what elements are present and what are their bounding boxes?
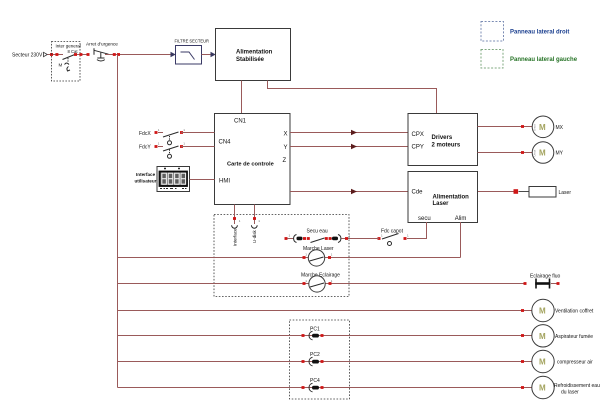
wire filter to power supply (202, 54, 212, 56)
motor MX (532, 116, 563, 138)
svg-text:U-disk: U-disk (252, 229, 257, 243)
svg-text:Umot: Umot (533, 150, 537, 157)
svg-text:Carte de controle: Carte de controle (227, 161, 274, 167)
arrow Cde (351, 189, 357, 194)
motor ventilation coffret (532, 299, 594, 321)
svg-text:du laser: du laser (561, 390, 579, 396)
wire U1 to CN1 (241, 81, 243, 114)
lamp Eclairage fluo (524, 274, 561, 289)
wire PC2 row (118, 361, 533, 363)
legend panneau lateral droit (481, 22, 569, 42)
enclosure dashed panel (marche controls) (214, 215, 349, 297)
svg-text:M: M (539, 358, 546, 367)
svg-text:HMI: HMI (219, 179, 230, 185)
laser head (529, 187, 571, 198)
node dots at inter general output (74, 53, 90, 56)
svg-text:MX: MX (556, 125, 564, 131)
filter F1 FILTRE SECTEUR (175, 39, 210, 65)
wire X output to driver CPX (290, 132, 408, 134)
svg-text:Y: Y (284, 145, 288, 151)
power supply U1 Alimentation Stabilisee (216, 29, 291, 81)
wire Alim pin riser (460, 222, 462, 258)
motor MY (532, 142, 563, 164)
enclosure dashed panel PC (prises) (290, 320, 350, 399)
wire PC1 row (118, 335, 533, 337)
wire laser supply to laser head (478, 191, 514, 193)
svg-text:secu: secu (418, 216, 431, 222)
svg-text:FdcX: FdcX (139, 131, 151, 137)
svg-text:X: X (284, 132, 288, 138)
wire mains from J1 to inter general (48, 54, 64, 56)
svg-text:Umot: Umot (533, 124, 537, 131)
svg-text:CN1: CN1 (234, 119, 247, 125)
node mains dots at inter general input (50, 53, 58, 56)
svg-text:Alimentation: Alimentation (236, 50, 273, 56)
svg-text:M: M (539, 149, 546, 158)
laser supply U4 Alimentation Laser (408, 172, 478, 223)
arrow into filter (171, 52, 176, 57)
svg-text:Interface: Interface (136, 172, 156, 177)
svg-text:Fdc capot: Fdc capot (381, 229, 404, 235)
wire secu pin down to fdc capot (407, 222, 427, 239)
socket PC4 (302, 378, 324, 392)
arrow into power supply (211, 52, 216, 57)
svg-text:Stabilisée: Stabilisée (236, 57, 265, 63)
driver U3 Drivers 2 moteurs (408, 114, 478, 166)
legend panneau lateral gauche (481, 50, 578, 69)
svg-text:compresseur air: compresseur air (557, 360, 593, 366)
svg-text:Drivers: Drivers (432, 135, 453, 141)
svg-text:Z: Z (283, 158, 287, 164)
motor compresseur air (532, 350, 593, 372)
node laser junction (514, 189, 519, 194)
svg-text:Refroidissement eau: Refroidissement eau (554, 383, 600, 389)
motor aspirateur fumee (532, 325, 593, 347)
arrow Y (351, 144, 357, 149)
wire from emergency stop to filter (105, 54, 171, 56)
svg-text:Interface: Interface (233, 228, 238, 246)
switch Marche Laser (303, 246, 334, 266)
svg-text:Cde: Cde (412, 190, 424, 196)
svg-text:FdcY: FdcY (139, 145, 151, 151)
switch blade inter general (59, 54, 77, 71)
node dots after emergency stop / main junction (113, 53, 120, 56)
svg-text:M: M (539, 384, 546, 393)
wire main vertical distribution bus (117, 55, 119, 388)
wire U1 to drivers supply (268, 81, 437, 114)
svg-text:M: M (539, 123, 546, 132)
wire driver to motor MX (478, 126, 533, 128)
motor refroidissement eau du laser (532, 376, 600, 398)
svg-text:Alimentation: Alimentation (433, 195, 470, 201)
svg-text:Alim: Alim (455, 216, 467, 222)
svg-text:Secteur 230V: Secteur 230V (12, 52, 43, 58)
svg-text:Inter general: Inter general (56, 44, 81, 49)
svg-text:M: M (539, 332, 546, 341)
svg-text:MY: MY (556, 151, 564, 157)
arrow X (351, 130, 357, 135)
svg-text:Laser: Laser (433, 201, 450, 207)
switch Marche Eclairage (301, 273, 340, 293)
switch Marche Eclairage row wire (118, 283, 310, 285)
switch Fdc capot (378, 229, 407, 246)
svg-text:Ventilation coffret: Ventilation coffret (555, 309, 594, 315)
svg-text:CPY: CPY (412, 145, 424, 151)
connector J1 Secteur 230V (12, 52, 47, 58)
svg-text:2 moteurs: 2 moteurs (432, 142, 461, 148)
svg-text:M: M (539, 307, 546, 316)
wire Y output to driver CPY (290, 146, 408, 148)
svg-text:Eclairage fluo: Eclairage fluo (530, 274, 561, 280)
switch FdcX limit switch (139, 131, 215, 145)
wire between inter general and emergency stop (76, 54, 89, 56)
svg-text:Laser: Laser (559, 190, 572, 196)
svg-text:CPX: CPX (412, 132, 424, 138)
switch Marche Laser row wire (118, 257, 309, 259)
wire ventilation row (118, 310, 533, 312)
wire Cde output to laser supply (290, 191, 408, 193)
wire PC4 row (118, 387, 533, 389)
switch Q1 inter general (dashed enclosure) (52, 42, 81, 82)
wire driver to motor MY (478, 152, 533, 154)
wire fdc capot to secu eau (347, 238, 380, 240)
svg-text:utilisateur: utilisateur (135, 179, 157, 184)
connector U-disk (to carte) (251, 205, 257, 244)
socket PC1 (302, 327, 324, 340)
connector Interface (to carte) (232, 205, 238, 247)
svg-text:Arret d'urgence: Arret d'urgence (86, 42, 118, 47)
svg-text:FILTRE SECTEUR: FILTRE SECTEUR (175, 39, 210, 44)
interlock Secu eau (285, 229, 346, 243)
display HMI interface utilisateur (135, 167, 215, 192)
svg-text:Panneau lateral gauche: Panneau lateral gauche (510, 57, 578, 63)
socket PC2 (302, 352, 324, 366)
svg-text:Aspirateur fumée: Aspirateur fumée (555, 334, 593, 340)
switch S1 Arret d'urgence (86, 42, 118, 62)
svg-text:Secu eau: Secu eau (307, 229, 328, 235)
switch FdcY limit switch (139, 145, 215, 159)
svg-text:Panneau lateral droit: Panneau lateral droit (510, 30, 569, 36)
svg-text:CN4: CN4 (219, 140, 232, 146)
controller U2 Carte de controle (215, 114, 291, 205)
svg-text:M: M (59, 63, 63, 68)
